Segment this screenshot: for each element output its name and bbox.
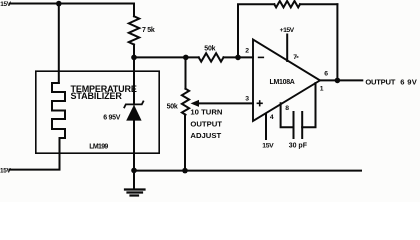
wire C1 to pin 1 [302,83,315,127]
wire heater bottom lead to -15V [10,138,60,170]
capacitor C1 left plate [293,112,295,138]
svg-text:15V: 15V [0,1,12,8]
node F: pot / bottom rail junction [182,168,188,174]
node E: inverting input / feedback junction [235,55,241,61]
wire node B to input resistor [134,56,199,58]
wire zener top lead [133,57,135,104]
temperature stabilizer box (LM199 package) [36,71,159,153]
pot wiper wire to non-inverting input [195,102,253,104]
svg-text:OUTPUT: OUTPUT [190,119,222,128]
wire feedback right vertical [336,4,338,80]
capacitor C1 right plate [301,112,303,138]
svg-text:8: 8 [285,105,289,112]
svg-text:STABILIZER: STABILIZER [71,91,123,101]
wire bottom rail [134,170,361,172]
wire pin 7 lead [286,35,288,62]
pin 7 tick [297,56,299,57]
pin 8 lead [281,103,294,127]
svg-text:1: 1 [320,85,324,92]
minus sign inverting input [259,56,264,58]
svg-text:15V: 15V [262,142,274,149]
node A: +15V rail / heater junction [56,1,62,7]
ground symbol [133,170,135,188]
wire R2 to op-amp inverting input [224,56,254,58]
wire zener bottom lead [133,121,135,171]
resistor R1 7.5k [129,16,139,44]
pot wiper arrowhead [191,100,200,107]
wire pot top lead [185,57,187,88]
wire +15V top rail [10,4,134,17]
svg-text:15V: 15V [0,168,12,175]
zener diode D1 cathode bar [124,101,143,107]
svg-text:30 pF: 30 pF [289,142,308,149]
wire R1 bottom lead [133,45,135,58]
plus sign non-inverting input [257,102,262,104]
svg-text:6: 6 [324,71,328,78]
svg-text:OUTPUT: OUTPUT [365,77,395,86]
op-amp U1 LM108A triangle [253,40,320,122]
svg-text:4: 4 [270,114,274,121]
svg-text:6 9V: 6 9V [400,77,417,86]
svg-text:ADJUST: ADJUST [190,131,221,140]
wire pot bottom lead [184,115,186,171]
wire feedback top rail left [238,4,274,57]
node C: ground junction [131,168,137,174]
svg-text:LM108A: LM108A [270,79,295,86]
svg-text:+15V: +15V [280,27,295,34]
svg-text:6 95V: 6 95V [103,115,121,122]
potentiometer R3 50k 10-turn [182,89,189,115]
svg-text:LM199: LM199 [89,143,108,150]
svg-text:3: 3 [245,96,249,103]
heater element meander [52,83,65,138]
wire heater top lead [58,4,60,83]
node G: output / feedback junction [335,78,341,84]
svg-text:10 TURN: 10 TURN [190,108,222,117]
wire feedback top rail right [300,3,337,5]
pin 4 lead [265,114,267,140]
svg-text:50k: 50k [167,103,178,110]
node B: R1 / zener / feedback-divider junction [131,55,137,61]
wire output [320,79,362,81]
svg-text:2: 2 [245,48,249,55]
svg-text:7 5k: 7 5k [142,27,155,34]
svg-text:50k: 50k [204,45,215,52]
zener diode D1 triangle [126,105,141,121]
resistor R2 50k (input) [199,53,224,61]
resistor R4 feedback [274,1,300,7]
node D: pot top junction [183,55,189,61]
